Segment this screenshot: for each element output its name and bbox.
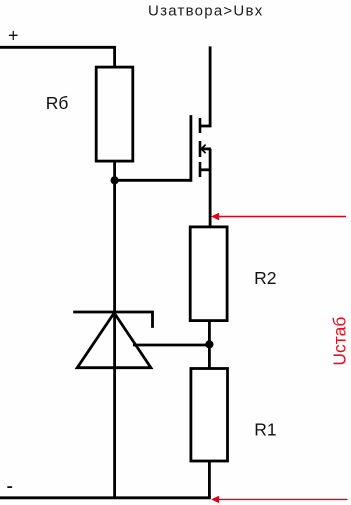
resistor R2: [190, 227, 227, 321]
wire R1 to bottom rail: [208, 461, 211, 498]
transistor VT1 drain lead: [200, 46, 210, 126]
wire bottom rail: [0, 496, 211, 499]
resistor R1: [191, 369, 228, 462]
svg-text:+: +: [8, 26, 19, 46]
wire node A to gate: [115, 179, 191, 182]
transistor VT1 source lead: [200, 168, 210, 171]
wire R2 to node B: [208, 321, 211, 345]
wire top rail: [0, 47, 115, 67]
wire node B to R1: [208, 344, 211, 368]
wire zener to node B: [133, 344, 209, 347]
node A: [111, 176, 119, 184]
zener diode VD1 cathode bar with hook: [73, 312, 152, 328]
resistor Rб: [96, 67, 133, 161]
red arrow top (stab voltage marker): [211, 213, 346, 221]
transistor VT1 source channel bar: [199, 162, 202, 177]
transistor VT1 body channel bar: [199, 141, 202, 157]
svg-text:Rб: Rб: [46, 93, 69, 113]
transistor VT1 MOSFET gate line: [189, 115, 192, 182]
transistor VT1 drain channel bar: [199, 118, 202, 133]
transistor VT1 body arrowhead: [201, 145, 205, 154]
svg-text:Uстаб: Uстаб: [329, 317, 349, 366]
svg-text:R1: R1: [254, 420, 276, 440]
node B: [205, 340, 213, 348]
zener diode VD1 triangle: [77, 313, 151, 368]
svg-text:R2: R2: [254, 268, 276, 288]
svg-text:Uзатвора>Uвх: Uзатвора>Uвх: [148, 2, 263, 19]
wire source down to R2: [209, 149, 212, 227]
wire Rб to zener (left vertical): [113, 161, 116, 498]
red arrow bottom (stab voltage marker): [211, 496, 348, 503]
transistor VT1 body lead with arrow: [200, 147, 211, 150]
minus terminal: [7, 486, 12, 488]
